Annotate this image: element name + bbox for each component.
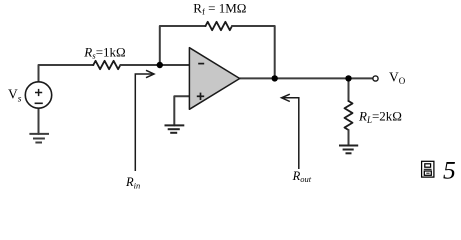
output terminal (open circle): [373, 76, 378, 81]
ground (below Vs): [29, 134, 49, 143]
Rin measurement arrow: [135, 70, 154, 171]
svg-text:5: 5: [443, 156, 456, 185]
wire Vs bottom lead: [38, 108, 40, 134]
wire RL top lead: [348, 78, 350, 101]
svg-text:Vs: Vs: [8, 87, 22, 105]
wire feedback right side down to output node: [232, 26, 275, 78]
wire from Vs top to Rs: [39, 65, 94, 82]
voltage source Vs: [25, 82, 51, 108]
ground (below RL): [339, 146, 358, 154]
resistor RL (vertical zigzag): [345, 101, 353, 130]
svg-text:VO: VO: [389, 70, 406, 87]
ground (op-amp + input): [165, 125, 185, 132]
node C (RL junction): [345, 75, 351, 81]
wire output to terminal: [240, 77, 373, 79]
wire Rs to inverting input node and op-amp minus input: [120, 64, 189, 66]
wire RL bottom lead: [348, 130, 350, 146]
resistor Rf (zigzag): [206, 22, 233, 30]
resistor Rs (zigzag): [93, 61, 120, 69]
svg-text:RL=2kΩ: RL=2kΩ: [358, 109, 402, 126]
wire op-amp plus input to ground: [174, 96, 189, 125]
svg-text:Rin: Rin: [125, 175, 140, 191]
svg-text:Rf = 1MΩ: Rf = 1MΩ: [193, 0, 246, 16]
svg-text:Rout: Rout: [292, 169, 312, 184]
figure caption 圖 (CJK glyph drawn as paths): [422, 161, 434, 177]
wire feedback left riser: [160, 26, 206, 65]
node A (inverting input junction): [157, 62, 163, 68]
Rout measurement arrow: [282, 94, 299, 169]
svg-text:Rs=1kΩ: Rs=1kΩ: [83, 45, 125, 61]
node B (output junction): [272, 75, 278, 81]
op-amp U1: [189, 48, 239, 110]
